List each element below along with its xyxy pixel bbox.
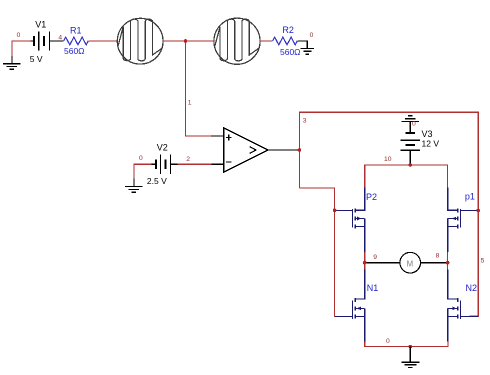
junction op-amp output node 3	[298, 148, 302, 152]
svg-text:R1: R1	[70, 25, 82, 35]
svg-text:9: 9	[373, 254, 377, 261]
ground (bottom)	[401, 347, 419, 368]
wire V2 to op-amp minus input	[178, 163, 212, 165]
svg-text:M: M	[407, 259, 414, 268]
svg-text:2.5 V: 2.5 V	[147, 176, 167, 186]
transistor P2 (PMOS)	[335, 188, 365, 253]
junction V3 to rail	[409, 163, 413, 167]
wire ground to V1	[12, 41, 31, 56]
wire LDR2 to R2	[260, 40, 273, 42]
svg-text:5 V: 5 V	[30, 54, 43, 64]
svg-text:0: 0	[17, 32, 21, 39]
ground (V3, flipped)	[402, 116, 420, 133]
junction node 8	[446, 261, 450, 265]
svg-text:1: 1	[188, 99, 192, 106]
wire R2 to ground	[297, 41, 307, 48]
svg-text:0: 0	[139, 155, 143, 162]
motor M1	[365, 252, 448, 273]
svg-text:N2: N2	[466, 283, 478, 293]
resistor R2	[273, 37, 298, 45]
photoresistor LDR1	[117, 18, 163, 64]
svg-text:3: 3	[303, 117, 307, 124]
wire left leg to motor rail	[364, 252, 366, 269]
battery V1	[31, 32, 64, 51]
battery V2	[151, 155, 177, 174]
ground (left of V1)	[3, 56, 21, 70]
wire net 3 jog to left gates	[299, 188, 340, 316]
svg-text:V2: V2	[157, 143, 168, 153]
wire LDR1 to LDR2 with junction	[163, 40, 214, 42]
battery V3	[401, 133, 420, 164]
svg-text:560Ω: 560Ω	[64, 46, 85, 56]
wire R1 to LDR1	[88, 40, 117, 42]
svg-text:0: 0	[386, 338, 390, 345]
transistor N2 (NMOS, mirrored)	[448, 269, 478, 341]
wire right leg to motor rail	[447, 252, 449, 269]
transistor p1 (PMOS, mirrored)	[448, 188, 478, 253]
svg-text:0: 0	[412, 120, 416, 127]
junction node 1	[184, 39, 188, 43]
svg-text:10: 10	[384, 156, 392, 163]
svg-text:2: 2	[186, 156, 190, 163]
svg-text:V1: V1	[35, 20, 46, 30]
junction P2 gate node	[333, 209, 337, 213]
wire net 3: output riser, top run and right drop	[299, 112, 478, 316]
svg-text:R2: R2	[282, 25, 294, 35]
svg-text:12 V: 12 V	[422, 139, 440, 149]
svg-text:5: 5	[481, 257, 485, 264]
svg-text:560Ω: 560Ω	[280, 47, 301, 57]
op-amp output lead	[268, 149, 299, 151]
wire node 10 rail	[365, 165, 448, 188]
op-amp comparator U1	[224, 128, 269, 172]
resistor R1	[64, 37, 89, 45]
ground (right of R2)	[301, 48, 314, 54]
svg-text:p1: p1	[465, 192, 475, 202]
photoresistor LDR2	[214, 18, 260, 64]
transistor N1 (NMOS)	[335, 269, 365, 341]
svg-text:0: 0	[310, 32, 314, 39]
ground (V2)	[134, 164, 152, 179]
junction bottom rail to ground	[409, 345, 413, 349]
svg-text:P2: P2	[366, 192, 377, 202]
svg-text:4: 4	[58, 34, 62, 41]
wire node 1 to op-amp plus input	[186, 41, 212, 136]
wire bottom rail node 0	[365, 342, 448, 347]
junction p1 gate node	[476, 209, 480, 213]
svg-text:8: 8	[436, 253, 440, 260]
svg-text:N1: N1	[367, 283, 379, 293]
junction node 9	[363, 261, 367, 265]
